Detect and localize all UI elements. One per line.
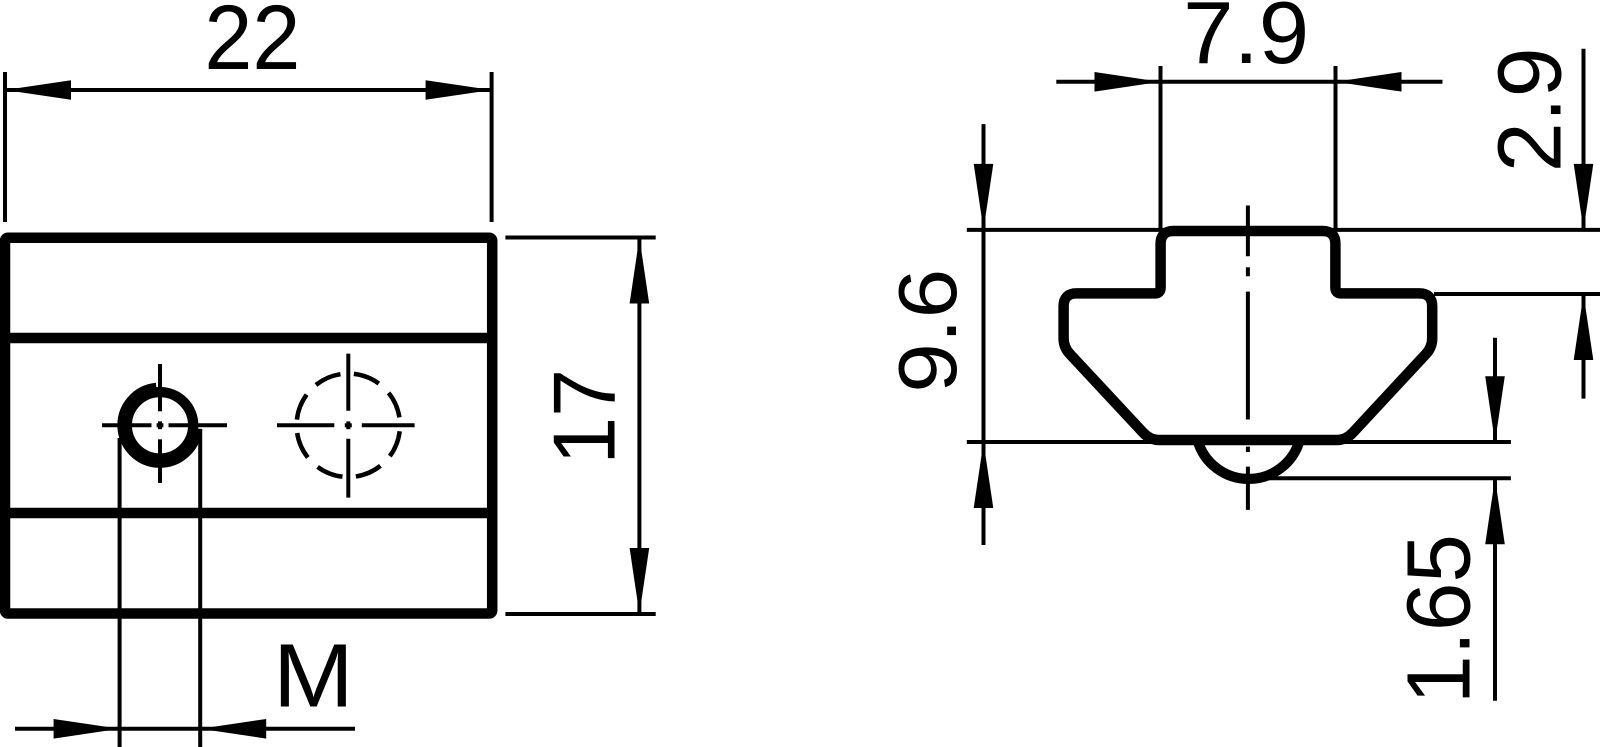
svg-text:M: M [273,627,354,727]
svg-text:1.65: 1.65 [1390,534,1490,704]
svg-text:7.9: 7.9 [1183,0,1309,82]
svg-text:17: 17 [534,369,633,465]
svg-text:22: 22 [204,0,300,89]
svg-text:9.6: 9.6 [881,269,974,393]
svg-text:2.9: 2.9 [1481,47,1581,172]
